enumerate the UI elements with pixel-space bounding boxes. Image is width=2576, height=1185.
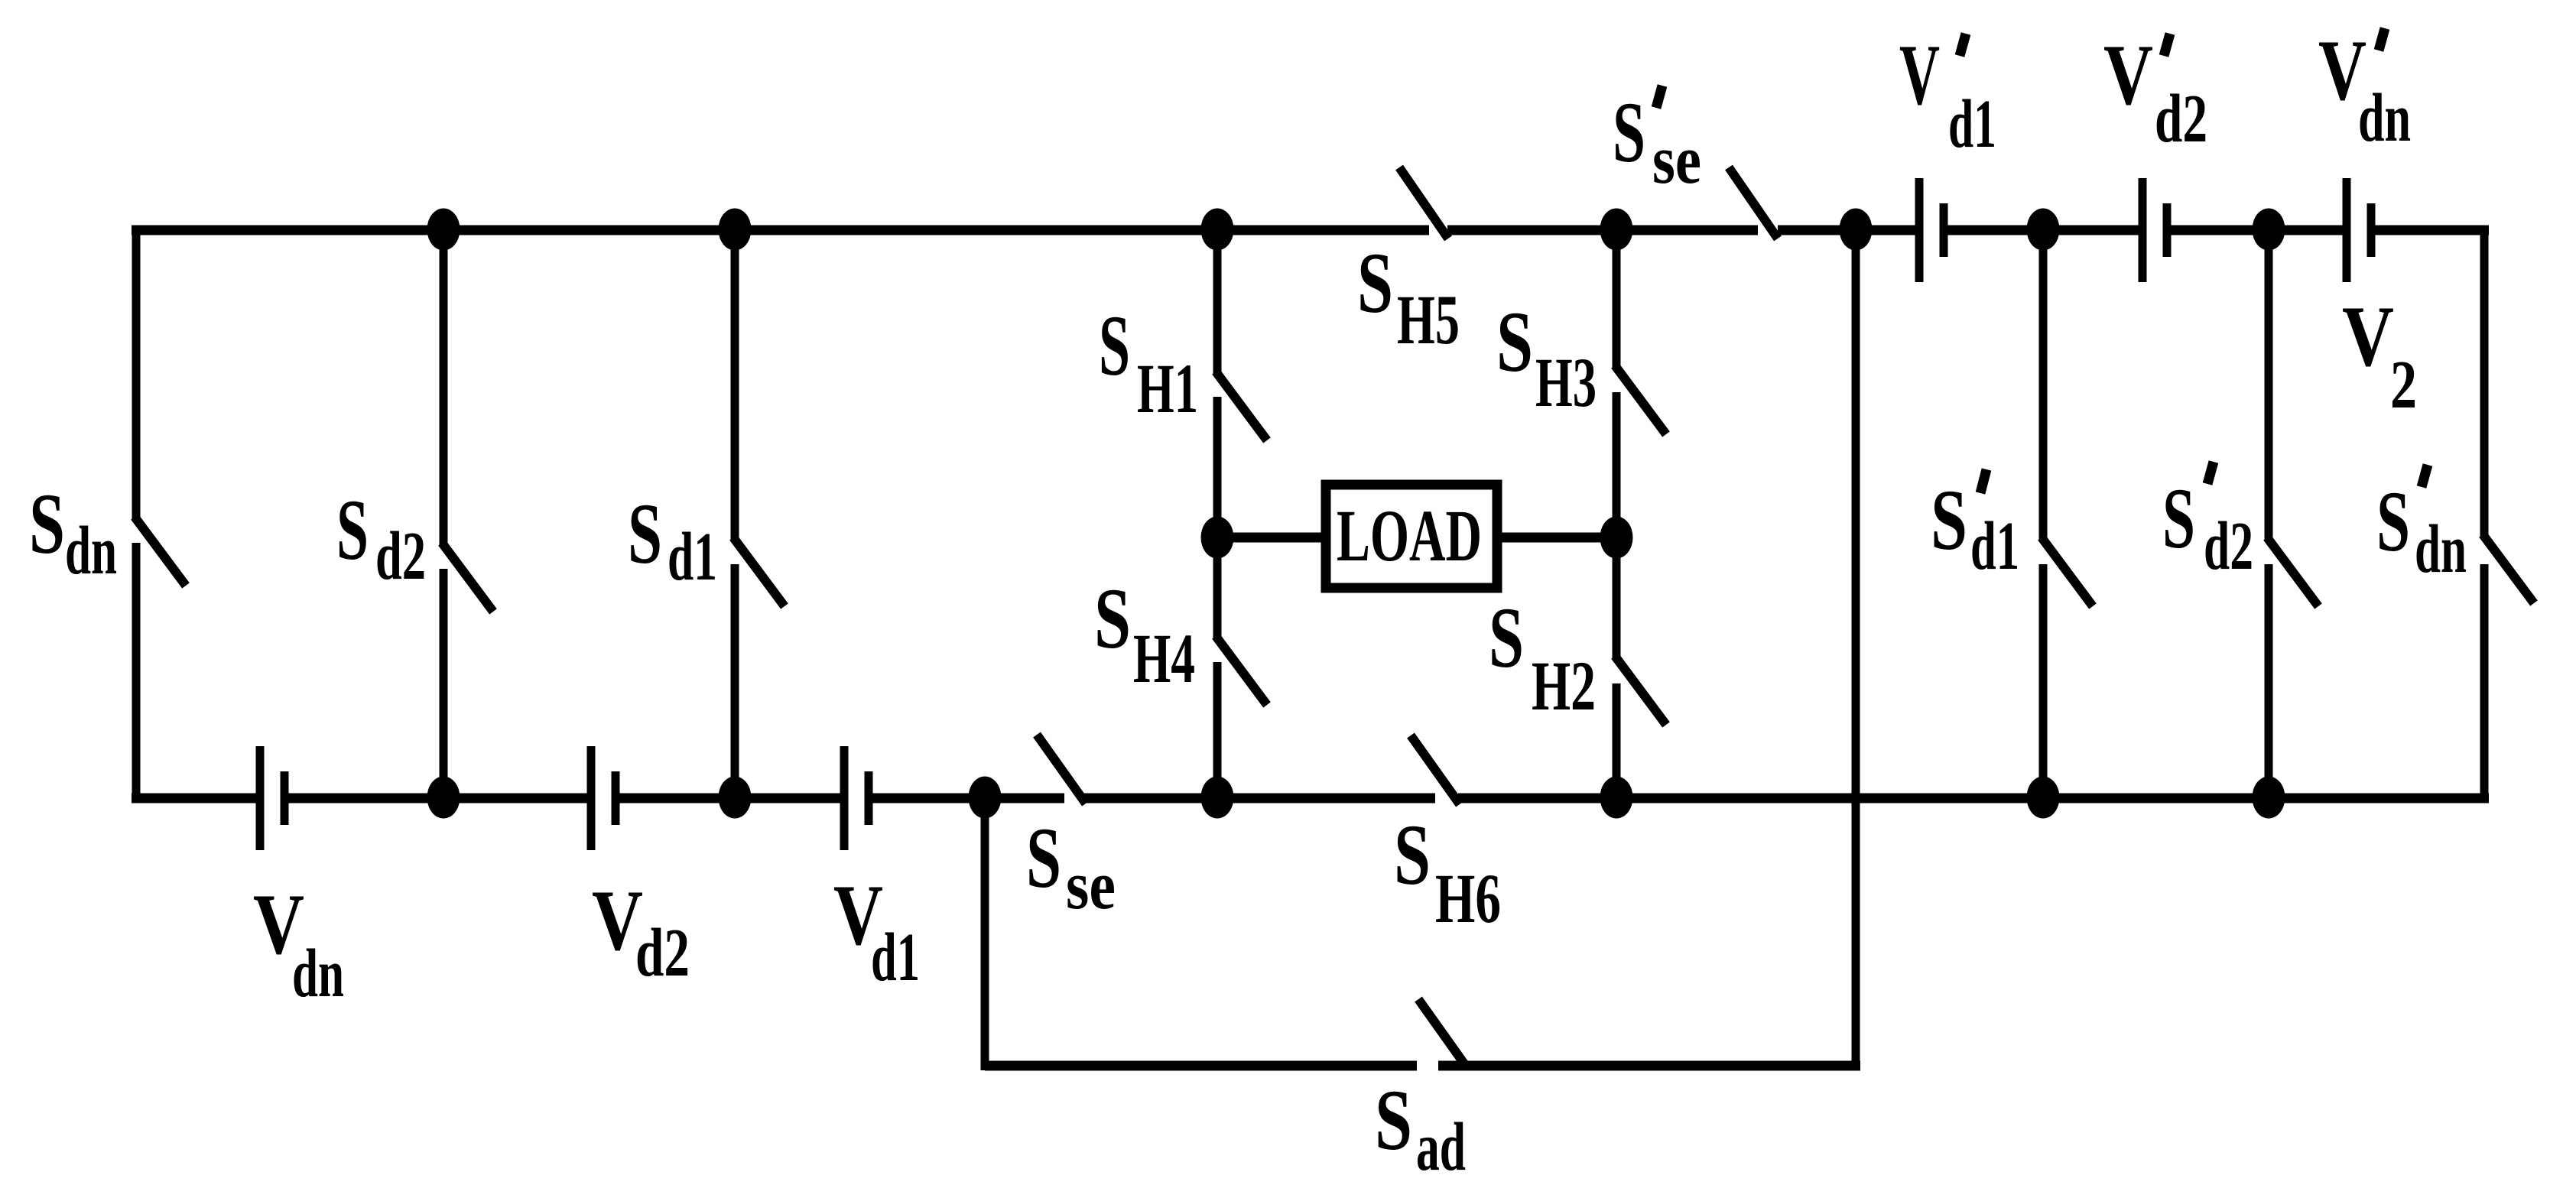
svg-text:V: V <box>2103 28 2153 123</box>
switch S'se blade <box>1729 167 1778 239</box>
svg-text:d2: d2 <box>2155 81 2207 157</box>
label switch Sse <box>1026 810 1116 924</box>
wire node to Sad branch <box>981 798 989 1070</box>
svg-text:LOAD: LOAD <box>1337 495 1482 576</box>
wire top bus right segment to corner <box>2371 226 2489 235</box>
svg-text:H2: H2 <box>1532 647 1596 725</box>
svg-text:d1: d1 <box>871 920 920 995</box>
node junction top separator <box>1840 209 1873 251</box>
wire LOAD left lead <box>1217 533 1321 543</box>
label battery V'dn <box>2318 23 2411 156</box>
svg-text:se: se <box>1652 122 1701 198</box>
node junction bottom H-right <box>1600 777 1633 819</box>
label switch SH1 <box>1099 298 1198 427</box>
battery V'dn plates <box>2343 178 2351 282</box>
switch SH1 blade <box>1216 372 1267 440</box>
svg-text:d2: d2 <box>375 518 426 594</box>
switch Sse blade <box>1037 735 1086 804</box>
label battery Vdn <box>253 877 344 1011</box>
wire left edge upper (Sdn top contact) <box>132 226 141 521</box>
wire H-bridge left leg bottom <box>1213 662 1222 798</box>
svg-text:d2: d2 <box>2204 508 2253 584</box>
svg-text:dn: dn <box>292 936 344 1011</box>
switch Sad blade <box>1418 999 1467 1068</box>
switch SH2 blade <box>1615 656 1666 725</box>
node junction top S'd1 <box>2027 209 2060 251</box>
wire H-bridge left leg top (SH1 upper) <box>1213 230 1222 375</box>
label switch SH3 <box>1496 294 1597 421</box>
wire S'd2 leg lower <box>2265 564 2273 798</box>
label switch SH4 <box>1094 571 1195 697</box>
svg-text:d1: d1 <box>1970 508 2019 584</box>
svg-text:S: S <box>1489 590 1524 686</box>
wire bottom bus segment Vd1 to Sse gap <box>869 794 1064 804</box>
svg-text:V: V <box>2342 289 2394 385</box>
wire top bus segment S'se to V'd1 <box>1778 226 1919 235</box>
label battery Vd1 <box>833 868 920 995</box>
label battery V2 <box>2342 289 2417 423</box>
switch Sdn blade <box>135 517 186 586</box>
svg-text:dn: dn <box>2415 511 2467 587</box>
wire Sd2 leg lower <box>440 569 448 798</box>
switch SH6 blade <box>1411 735 1460 804</box>
label switch S'd2 <box>2162 462 2253 584</box>
label switch S'se <box>1613 85 1701 198</box>
svg-text:dn: dn <box>65 513 117 589</box>
wire LOAD right lead <box>1502 533 1616 543</box>
battery V'd1 plates <box>1915 178 1924 282</box>
node junction bottom H-left <box>1201 777 1234 819</box>
wire Sad branch right segment <box>1438 1061 1860 1071</box>
node junction top S'd2 <box>2253 209 2285 251</box>
svg-text:H5: H5 <box>1397 281 1460 359</box>
load box <box>1326 485 1497 588</box>
wire bottom bus segment Sse to SH6 gap <box>1083 794 1435 804</box>
label switch SH6 <box>1394 807 1501 937</box>
label switch SH5 <box>1357 235 1460 359</box>
wire middle separator vertical <box>1852 230 1860 1070</box>
wire right edge upper (S'dn top contact) <box>2480 226 2489 537</box>
svg-text:2: 2 <box>2390 347 2417 423</box>
wire S'd2 leg upper <box>2265 230 2273 540</box>
label battery Vd2 <box>592 873 690 991</box>
wire Sd1 leg lower <box>731 564 739 798</box>
wire H-bridge left leg middle <box>1213 397 1222 640</box>
switch Sd1 blade <box>733 537 784 606</box>
svg-text:S: S <box>628 486 662 582</box>
wire H-bridge right leg top (SH3 upper) <box>1613 230 1621 369</box>
node junction top H-left <box>1201 209 1234 251</box>
wire bottom bus segment Vd2 to Vd1 <box>616 794 844 804</box>
svg-text:S: S <box>1357 235 1393 331</box>
node junction top H-right <box>1600 209 1633 251</box>
wire left edge lower <box>132 543 141 803</box>
switch S'dn blade <box>2483 534 2534 603</box>
svg-text:d2: d2 <box>635 915 690 991</box>
node junction bottom S'd2 <box>2253 777 2285 819</box>
battery Vd2 plates <box>587 746 596 850</box>
label switch Sad <box>1375 1073 1466 1185</box>
battery Vdn plates <box>256 746 265 850</box>
node junction LOAD right <box>1600 517 1633 559</box>
wire Sd2 leg upper <box>440 230 448 546</box>
node junction bottom Sse <box>969 777 1002 819</box>
battery Vd1 plates <box>840 746 849 850</box>
wire right edge lower <box>2480 564 2489 803</box>
wire bottom bus segment Vdn to Vd2 <box>284 794 591 804</box>
wire bottom bus right segment <box>1458 794 2489 804</box>
svg-text:H6: H6 <box>1435 859 1501 937</box>
switch SH5 blade <box>1399 167 1448 239</box>
switch Sd2 blade <box>442 543 493 612</box>
label switch Sdn <box>29 476 117 589</box>
label switch S'd1 <box>1931 469 2019 584</box>
switch S'd1 blade <box>2042 537 2093 606</box>
wire S'd1 leg lower <box>2039 564 2048 798</box>
switch S'd2 blade <box>2267 537 2318 606</box>
wire S'd1 leg upper <box>2039 230 2048 540</box>
node junction top Sd2 <box>427 209 460 251</box>
switch SH3 blade <box>1615 365 1666 434</box>
svg-text:S: S <box>336 482 369 578</box>
svg-text:d1: d1 <box>1948 86 1996 162</box>
node junction LOAD left <box>1201 517 1234 559</box>
svg-text:dn: dn <box>2358 80 2411 156</box>
svg-text:V: V <box>1899 28 1940 123</box>
battery V'd2 plates <box>2139 178 2147 282</box>
label switch SH2 <box>1489 590 1596 725</box>
svg-text:S: S <box>2162 471 2195 567</box>
wire H-bridge right leg middle <box>1613 392 1621 661</box>
wire bottom bus left segment <box>132 794 260 804</box>
wire top bus segment between SH5 and S'se <box>1447 226 1758 235</box>
svg-text:H1: H1 <box>1137 349 1198 427</box>
node junction top Sd1 <box>719 209 752 251</box>
node junction bottom Sd1 <box>719 777 752 819</box>
node junction bottom S'd1 <box>2027 777 2060 819</box>
switch SH4 blade <box>1216 636 1267 705</box>
label switch S'dn <box>2376 465 2467 587</box>
label battery V'd1 <box>1899 28 1996 162</box>
wire top bus segment V'd2 to V'dn <box>2167 226 2347 235</box>
svg-text:se: se <box>1066 848 1116 924</box>
svg-text:S: S <box>1394 807 1431 903</box>
wire top bus left segment <box>132 226 1429 235</box>
svg-text:d1: d1 <box>668 519 717 595</box>
svg-text:H3: H3 <box>1535 343 1597 421</box>
svg-text:S: S <box>1613 85 1645 180</box>
svg-text:S: S <box>1375 1073 1412 1168</box>
svg-text:ad: ad <box>1416 1109 1466 1185</box>
label switch Sd1 <box>628 486 717 595</box>
svg-text:S: S <box>29 476 65 572</box>
label battery V'd2 <box>2103 28 2207 157</box>
wire H-bridge right leg bottom <box>1613 683 1621 798</box>
wire top bus segment V'd1 to V'd2 <box>1944 226 2142 235</box>
node junction bottom Sd2 <box>427 777 460 819</box>
svg-text:S: S <box>1026 810 1061 906</box>
svg-text:S: S <box>1496 294 1533 390</box>
label switch Sd2 <box>336 482 426 594</box>
svg-text:S: S <box>1931 472 1967 568</box>
wire Sd1 leg upper <box>731 230 739 540</box>
svg-text:S: S <box>1099 298 1130 394</box>
svg-text:H4: H4 <box>1133 619 1195 697</box>
svg-text:S: S <box>1094 571 1131 667</box>
wire Sad branch left segment <box>985 1061 1417 1071</box>
svg-text:S: S <box>2376 474 2410 570</box>
